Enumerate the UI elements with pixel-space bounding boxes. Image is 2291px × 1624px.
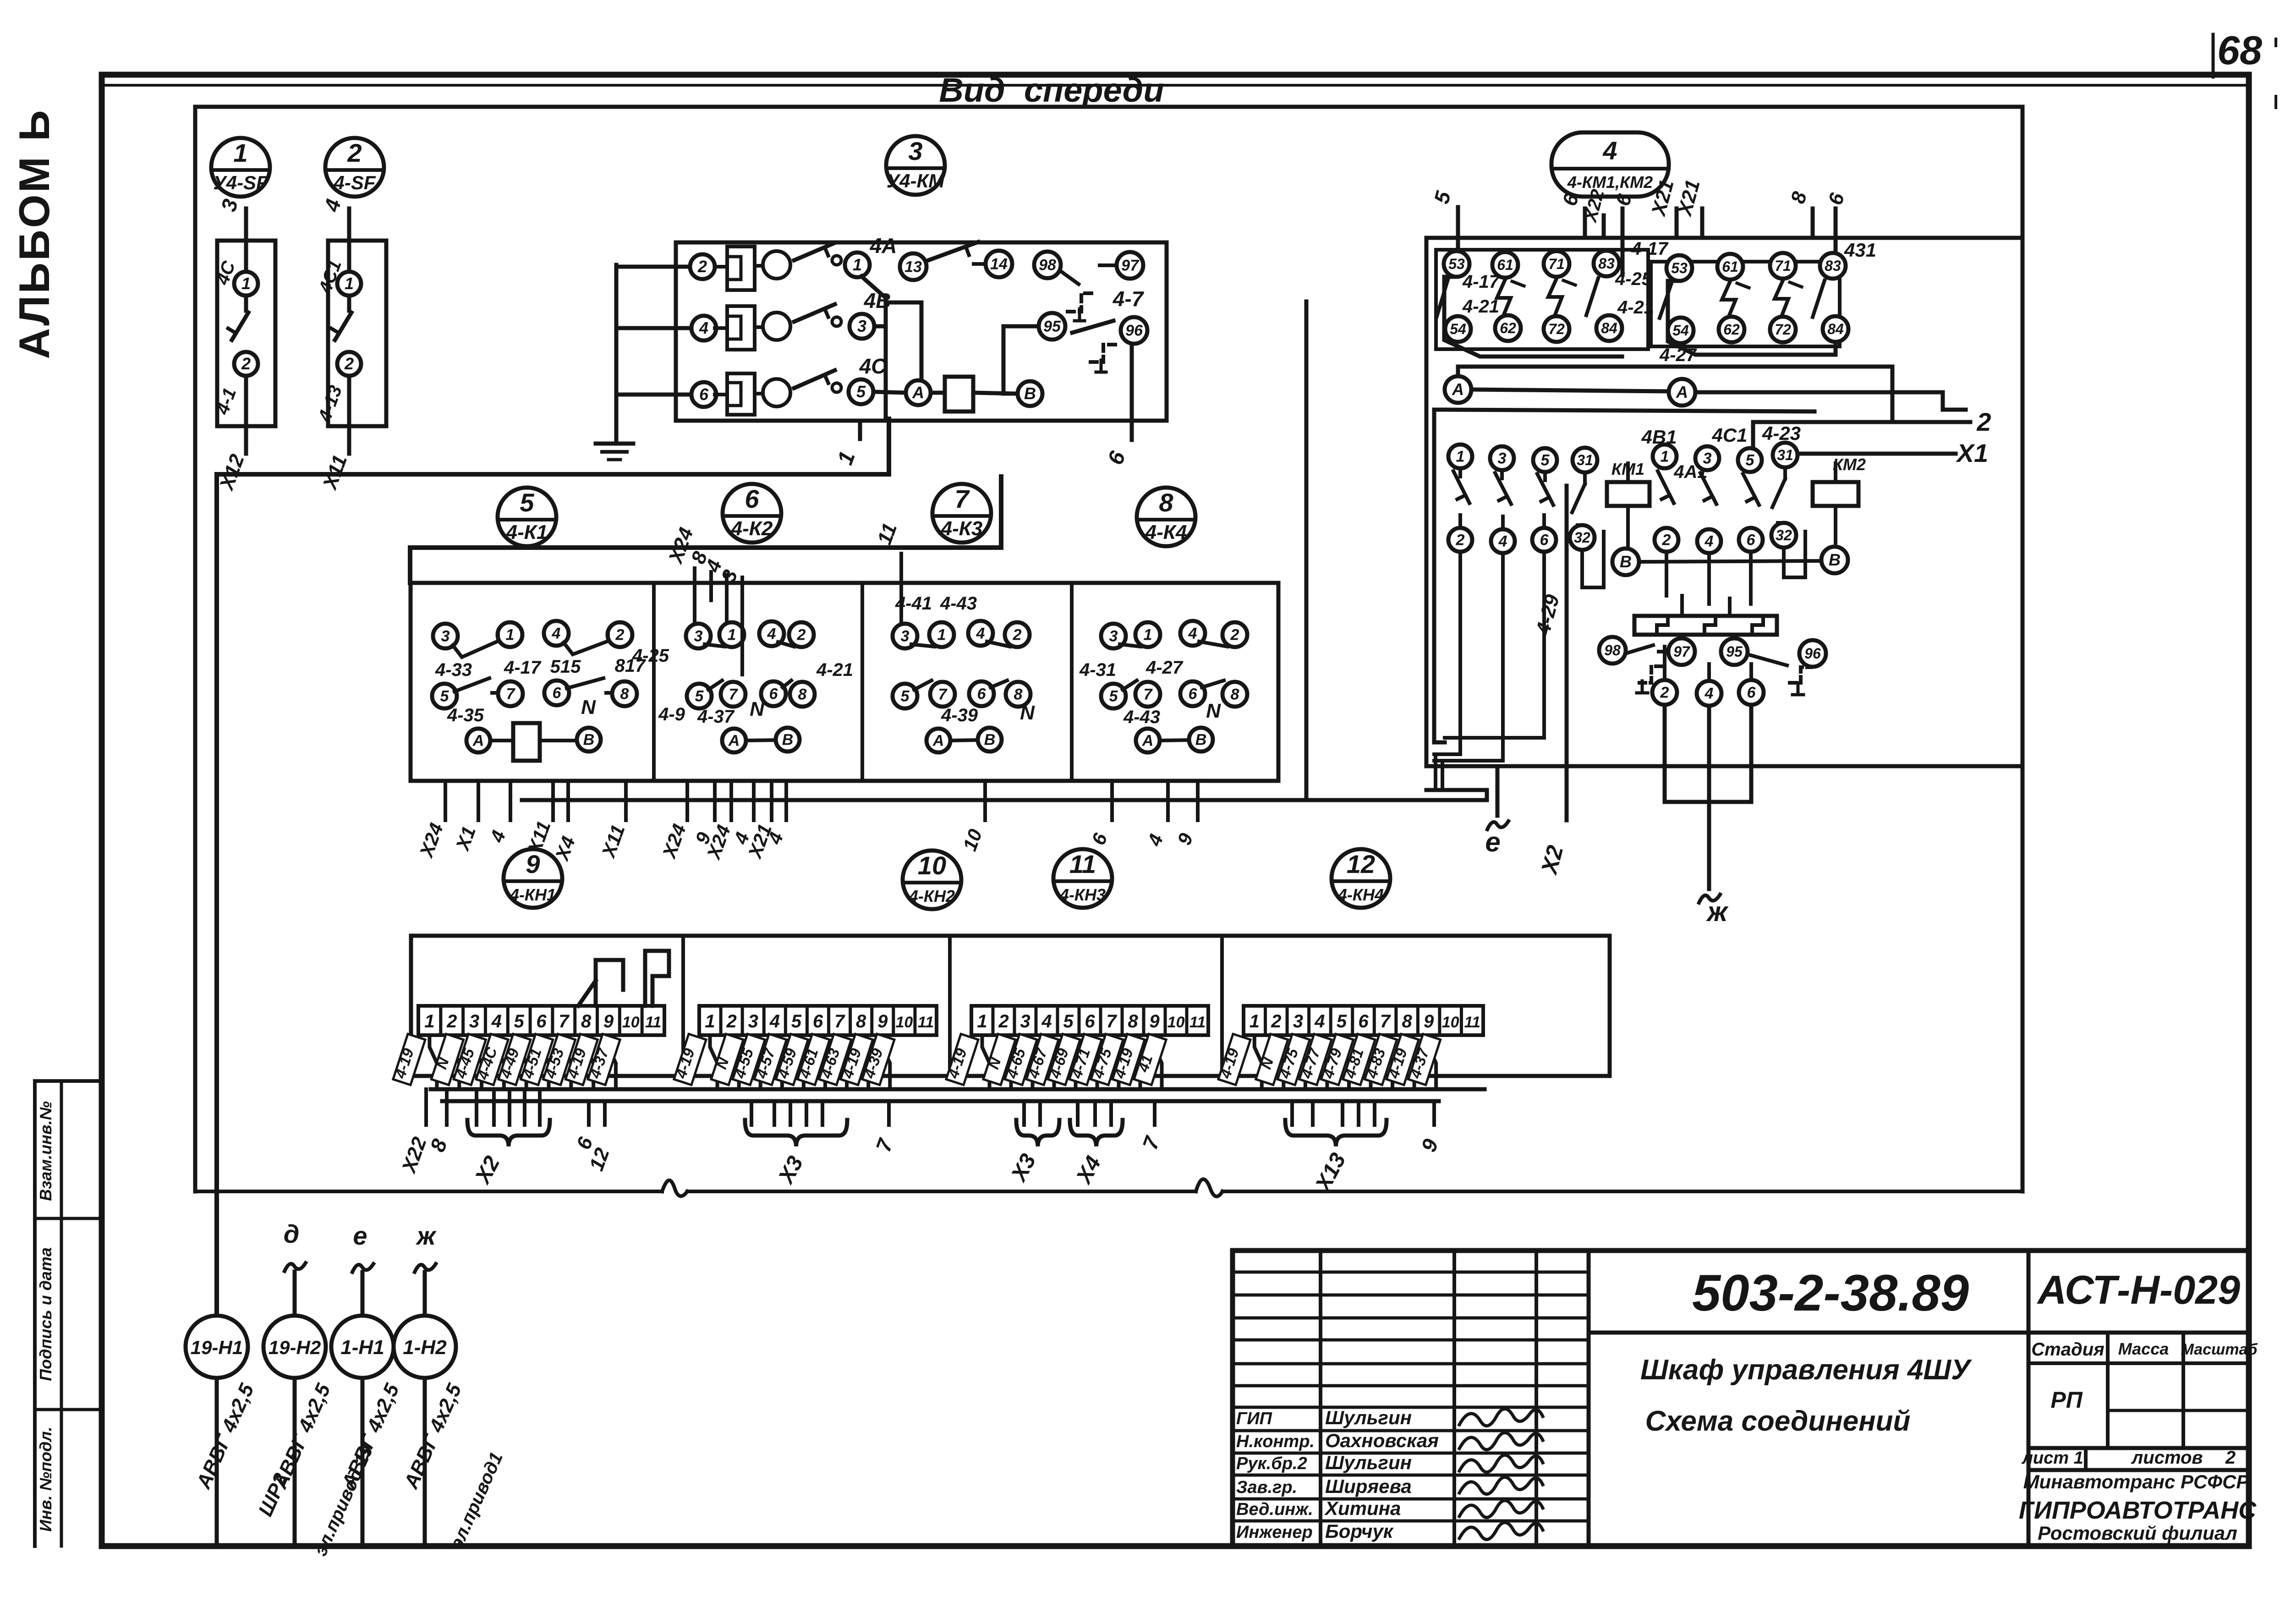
svg-text:6: 6 bbox=[1540, 532, 1549, 549]
svg-text:83: 83 bbox=[1598, 255, 1615, 272]
svg-text:5: 5 bbox=[901, 688, 910, 705]
terminal strips box bbox=[411, 936, 1610, 1076]
svg-text:А: А bbox=[1676, 383, 1688, 401]
svg-text:5: 5 bbox=[514, 1011, 525, 1031]
title block vertical lines left part bbox=[1319, 1251, 1322, 1546]
svg-text:11: 11 bbox=[1189, 1014, 1206, 1031]
svg-text:97: 97 bbox=[1121, 257, 1140, 274]
aux contact 98 bbox=[1034, 252, 1061, 278]
svg-text:Масса: Масса bbox=[2118, 1339, 2169, 1358]
svg-text:4-21: 4-21 bbox=[1462, 296, 1499, 317]
svg-text:Инженер: Инженер bbox=[1236, 1523, 1313, 1542]
svg-text:3: 3 bbox=[748, 1011, 758, 1031]
top stubs 6 X22 6 bbox=[1583, 208, 1587, 238]
relay K4 coil node B bbox=[1189, 728, 1213, 752]
svg-text:1: 1 bbox=[345, 274, 354, 293]
svg-text:3: 3 bbox=[441, 628, 450, 645]
relay K1 contact blades row1 bbox=[453, 632, 498, 657]
svg-text:1: 1 bbox=[1144, 626, 1152, 644]
svg-text:6: 6 bbox=[769, 686, 778, 703]
relay K4 contact blades row1 bbox=[1120, 644, 1140, 647]
overload circle row3 bbox=[763, 379, 790, 406]
svg-text:6: 6 bbox=[1085, 1011, 1095, 1031]
relay K3 contact blades row1 bbox=[911, 644, 934, 647]
svg-text:X1: X1 bbox=[1956, 439, 1989, 467]
svg-text:4-27: 4-27 bbox=[1145, 658, 1184, 678]
svg-text:4-КН1: 4-КН1 bbox=[510, 885, 556, 904]
svg-text:2: 2 bbox=[998, 1011, 1008, 1031]
svg-text:4-К3: 4-К3 bbox=[941, 517, 983, 540]
svg-text:5: 5 bbox=[1541, 452, 1550, 469]
coil node A bbox=[906, 380, 931, 405]
svg-text:А: А bbox=[472, 732, 484, 750]
svg-text:4: 4 bbox=[1602, 136, 1617, 165]
svg-text:2: 2 bbox=[446, 1011, 457, 1031]
thermal contact block bbox=[1634, 616, 1777, 635]
svg-text:5: 5 bbox=[856, 382, 866, 401]
svg-text:11: 11 bbox=[1069, 850, 1096, 878]
svg-text:Вид спереди: Вид спереди bbox=[939, 71, 1164, 109]
svg-text:13: 13 bbox=[904, 258, 922, 276]
svg-text:1: 1 bbox=[937, 626, 946, 644]
ground symbol bbox=[596, 442, 633, 446]
coil KM bbox=[945, 377, 973, 411]
bus wires A bbox=[1458, 367, 1892, 422]
svg-text:2: 2 bbox=[347, 138, 362, 167]
wire from pin 1 down to coil bbox=[861, 276, 886, 298]
wire pin5 to node A bbox=[873, 392, 906, 393]
svg-text:98: 98 bbox=[1039, 257, 1056, 274]
svg-text:У4-SF: У4-SF bbox=[213, 172, 269, 193]
breaker SF2 wire stub with node 4 bbox=[347, 208, 351, 240]
relay K4 pins row1 bbox=[1101, 624, 1126, 648]
terminal strip tag labels bbox=[674, 1034, 706, 1085]
svg-text:84: 84 bbox=[1601, 320, 1617, 336]
brace X3 bbox=[745, 1120, 847, 1147]
svg-text:11: 11 bbox=[1464, 1014, 1480, 1031]
svg-text:А: А bbox=[912, 383, 924, 402]
svg-text:72: 72 bbox=[1775, 321, 1791, 338]
breaker SF1 pin 2 bbox=[234, 352, 258, 376]
terminal strip drop wires bbox=[982, 1035, 990, 1089]
svg-text:1: 1 bbox=[977, 1011, 987, 1031]
svg-text:АЛЬБОМ Ь: АЛЬБОМ Ь bbox=[10, 108, 58, 359]
component badge 10 (4-КН2) bbox=[903, 850, 961, 909]
terminal strip tag labels bbox=[946, 1034, 978, 1085]
svg-text:19-Н2: 19-Н2 bbox=[269, 1337, 321, 1358]
svg-text:е: е bbox=[1485, 827, 1500, 857]
svg-text:4-43: 4-43 bbox=[940, 593, 977, 614]
relay K3 coil wire bbox=[950, 740, 978, 741]
node B left bbox=[1612, 549, 1639, 575]
breaker SF2 pin 2 bbox=[337, 352, 361, 376]
svg-text:ГИПРОАВТОТРАНС: ГИПРОАВТОТРАНС bbox=[2019, 1497, 2257, 1524]
fuse row1 bbox=[727, 247, 755, 290]
wire group2 exit bbox=[1668, 281, 1836, 355]
svg-text:3: 3 bbox=[1703, 450, 1712, 467]
svg-text:4-КМ1,КМ2: 4-КМ1,КМ2 bbox=[1567, 173, 1653, 192]
aux contact 13 bbox=[900, 253, 926, 280]
svg-text:Стадия: Стадия bbox=[2031, 1339, 2104, 1360]
svg-text:2: 2 bbox=[1976, 407, 1991, 436]
svg-text:3: 3 bbox=[694, 628, 703, 645]
svg-text:ГИП: ГИП bbox=[1236, 1409, 1272, 1428]
svg-text:8: 8 bbox=[1402, 1011, 1412, 1031]
contactor pin 1 node 4A bbox=[845, 252, 870, 277]
svg-text:5: 5 bbox=[1337, 1011, 1347, 1031]
stage mass scale header bbox=[2106, 1333, 2110, 1448]
svg-text:4-КН2: 4-КН2 bbox=[909, 887, 955, 905]
contact hooks in section 1 bbox=[578, 960, 623, 1006]
wire drops to bus bbox=[1434, 754, 1437, 790]
wire vertical x=2851 bbox=[1304, 302, 1309, 800]
svg-text:4-7: 4-7 bbox=[1113, 287, 1145, 311]
terminal stub drops section2 bbox=[750, 1101, 753, 1125]
svg-text:В: В bbox=[1829, 550, 1841, 569]
svg-text:431: 431 bbox=[1844, 239, 1876, 261]
svg-text:3: 3 bbox=[469, 1011, 479, 1031]
svg-text:7: 7 bbox=[834, 1011, 845, 1031]
relay K1 contact blades row2 bbox=[455, 678, 498, 693]
svg-text:7: 7 bbox=[1380, 1011, 1391, 1031]
aux contacts 71-72 group1 bbox=[1544, 251, 1569, 277]
relay K2 coil node A bbox=[722, 729, 746, 752]
relay K2 pins row2 bbox=[687, 684, 712, 708]
svg-text:4-25: 4-25 bbox=[632, 646, 669, 666]
svg-text:8: 8 bbox=[1159, 488, 1173, 517]
svg-text:Н.контр.: Н.контр. bbox=[1236, 1432, 1315, 1451]
aux contacts 83-84 group2 bbox=[1820, 253, 1846, 279]
component badge 11 (4-КН3) bbox=[1053, 849, 1112, 908]
overload circle row1 bbox=[763, 251, 790, 279]
relay K4 contact blades row2 bbox=[1123, 680, 1137, 690]
relay K4 bottom stubs bbox=[1110, 781, 1114, 820]
breaker SF1 wire stub with node 3 bbox=[244, 208, 248, 240]
contactor pin 4 bbox=[691, 316, 716, 340]
component badge 5 (4-К1) bbox=[498, 488, 556, 546]
wire: ground bus to cable 19-H1 bbox=[214, 474, 219, 1316]
wire horizontals inner bbox=[1434, 752, 1460, 756]
breaker SF1 switch blade bbox=[244, 296, 248, 311]
svg-text:1-Н1: 1-Н1 bbox=[340, 1336, 384, 1359]
svg-text:листов: листов bbox=[2131, 1448, 2203, 1468]
svg-text:В: В bbox=[782, 731, 794, 749]
terminal strip tag labels bbox=[1218, 1034, 1250, 1085]
svg-text:4-21: 4-21 bbox=[816, 660, 853, 680]
svg-text:Шкаф управления 4ШУ: Шкаф управления 4ШУ bbox=[1640, 1354, 1972, 1386]
title block frame bbox=[1233, 1251, 2249, 1546]
fuse row2 bbox=[727, 306, 755, 350]
component badge 3 (У4-КМ) bbox=[886, 136, 945, 195]
svg-text:68: 68 bbox=[2217, 27, 2262, 73]
svg-text:9: 9 bbox=[1424, 1011, 1434, 1031]
svg-text:11: 11 bbox=[645, 1014, 661, 1031]
svg-text:Минавтотранс РСФСР: Минавтотранс РСФСР bbox=[2023, 1471, 2250, 1492]
relay K3 contact blades row2 bbox=[914, 680, 932, 690]
svg-text:В: В bbox=[583, 731, 595, 749]
wire stub node 6 from 96 bbox=[1130, 344, 1134, 440]
relay K2 pins row1 bbox=[686, 624, 711, 648]
aux contact 14 bbox=[986, 251, 1012, 277]
svg-text:3: 3 bbox=[1498, 450, 1507, 467]
relay K1 coil node B bbox=[577, 728, 601, 752]
svg-text:8: 8 bbox=[1014, 686, 1023, 703]
relay block box bbox=[411, 583, 1278, 781]
svg-text:96: 96 bbox=[1125, 322, 1143, 340]
svg-text:7: 7 bbox=[954, 484, 970, 513]
svg-text:N: N bbox=[1206, 700, 1221, 722]
svg-text:84: 84 bbox=[1827, 321, 1844, 337]
svg-text:62: 62 bbox=[1500, 320, 1516, 336]
relay K2 coil wire bbox=[746, 740, 776, 741]
svg-text:6: 6 bbox=[1358, 1011, 1369, 1031]
bus wire X1 exit bbox=[1791, 452, 1956, 456]
svg-text:4-К1: 4-К1 bbox=[506, 521, 548, 543]
svg-text:83: 83 bbox=[1825, 258, 1841, 274]
svg-text:1: 1 bbox=[233, 138, 247, 167]
svg-text:4С: 4С bbox=[859, 354, 887, 378]
svg-text:6: 6 bbox=[1747, 532, 1756, 549]
svg-text:КМ2: КМ2 bbox=[1833, 455, 1866, 474]
component badge 12 (4-КН4) bbox=[1332, 849, 1390, 908]
svg-text:5: 5 bbox=[520, 488, 534, 517]
svg-text:10: 10 bbox=[622, 1014, 640, 1031]
svg-text:Подпись и дата: Подпись и дата bbox=[36, 1247, 55, 1381]
relay K4 pins row2 bbox=[1101, 684, 1126, 708]
svg-text:9: 9 bbox=[603, 1011, 614, 1031]
svg-text:А: А bbox=[1142, 732, 1154, 750]
svg-text:N: N bbox=[750, 698, 765, 720]
svg-text:N: N bbox=[1020, 702, 1035, 724]
signatures bbox=[1459, 1409, 1543, 1426]
svg-text:14: 14 bbox=[990, 256, 1008, 273]
contactor KM box bbox=[676, 242, 1167, 421]
svg-text:4: 4 bbox=[1498, 533, 1507, 550]
svg-text:31: 31 bbox=[1577, 452, 1593, 468]
brace X3b bbox=[1016, 1120, 1059, 1147]
svg-text:2: 2 bbox=[2225, 1448, 2236, 1468]
relay K3 top stub 11 bbox=[899, 554, 903, 624]
KM1 aux 31-32 bbox=[1573, 448, 1597, 472]
aux contact 97 lower bbox=[1668, 638, 1695, 665]
svg-text:Шульгин: Шульгин bbox=[1325, 1452, 1412, 1473]
svg-text:3: 3 bbox=[908, 137, 922, 165]
terminal stub drops section3 bbox=[1022, 1101, 1026, 1125]
svg-text:8: 8 bbox=[798, 686, 807, 703]
svg-text:515: 515 bbox=[550, 657, 581, 677]
svg-text:1: 1 bbox=[1661, 448, 1669, 466]
svg-text:Оахновская: Оахновская bbox=[1325, 1430, 1439, 1451]
component badge 7 (4-К3) bbox=[932, 484, 991, 543]
overload circle row2 bbox=[763, 313, 790, 340]
svg-text:6: 6 bbox=[745, 484, 759, 513]
KM2 pole 5-6 bbox=[1738, 448, 1762, 472]
terminal strip row bbox=[971, 1006, 1208, 1035]
aux contacts 53-54 group2 bbox=[1666, 255, 1692, 281]
relay block dividers bbox=[652, 583, 656, 781]
svg-text:9: 9 bbox=[1149, 1011, 1160, 1031]
KM2 pole 1-2 node 4A1 bbox=[1653, 444, 1677, 468]
svg-text:6: 6 bbox=[1747, 684, 1756, 702]
breaker SF1 box bbox=[217, 241, 275, 426]
svg-text:4: 4 bbox=[1314, 1011, 1325, 1031]
svg-text:7: 7 bbox=[729, 686, 739, 703]
cable 19-Н1 lead and labels bbox=[215, 1378, 219, 1543]
svg-text:4-КН3: 4-КН3 bbox=[1059, 885, 1106, 904]
relay K1 bottom stubs bbox=[444, 781, 447, 820]
relay K4 coil wire bbox=[1160, 740, 1189, 741]
svg-text:4-К4: 4-К4 bbox=[1145, 521, 1187, 543]
svg-text:Борчук: Борчук bbox=[1325, 1520, 1394, 1542]
svg-text:95: 95 bbox=[1043, 318, 1061, 335]
KM2 coil bbox=[1813, 482, 1858, 506]
timed contact lower left bbox=[1626, 645, 1653, 653]
aux contact 98 lower bbox=[1599, 637, 1626, 664]
relay K3 coil node A bbox=[926, 729, 950, 752]
svg-text:Схема соединений: Схема соединений bbox=[1645, 1405, 1911, 1437]
cable circle 19-Н1 bbox=[186, 1316, 248, 1378]
wires poles down bbox=[1458, 552, 1462, 754]
switch blade row3 bbox=[794, 370, 835, 388]
node B right bbox=[1821, 547, 1848, 573]
svg-text:97: 97 bbox=[1673, 643, 1691, 660]
svg-text:11: 11 bbox=[918, 1014, 934, 1031]
svg-text:31: 31 bbox=[1777, 447, 1793, 463]
svg-text:4-17: 4-17 bbox=[504, 658, 542, 678]
svg-text:4-9: 4-9 bbox=[658, 704, 685, 724]
svg-text:32: 32 bbox=[1574, 529, 1590, 546]
svg-text:4-23: 4-23 bbox=[1762, 422, 1801, 444]
svg-text:2: 2 bbox=[1662, 532, 1671, 549]
svg-text:54: 54 bbox=[1450, 321, 1466, 337]
svg-text:5: 5 bbox=[791, 1011, 802, 1031]
svg-text:5: 5 bbox=[1109, 688, 1118, 705]
svg-text:4: 4 bbox=[1188, 625, 1197, 642]
wire 4-29 long vertical bbox=[1565, 486, 1569, 820]
aux contacts 53-54 group1 bbox=[1444, 251, 1469, 277]
svg-text:1: 1 bbox=[241, 274, 251, 293]
svg-text:4: 4 bbox=[1041, 1011, 1052, 1031]
brace X2 bbox=[467, 1120, 550, 1147]
svg-text:4: 4 bbox=[1705, 533, 1714, 550]
node A left bbox=[1445, 376, 1471, 403]
svg-text:503-2-38.89: 503-2-38.89 bbox=[1692, 1264, 1969, 1322]
aux contacts 61-62 group1 bbox=[1492, 252, 1518, 278]
terminal strip row bbox=[699, 1006, 937, 1035]
aux contacts 61-62 group2 bbox=[1717, 254, 1743, 280]
aux contact 95 bbox=[1039, 313, 1065, 340]
title block row lines left part bbox=[1233, 1271, 1589, 1274]
svg-text:АСТ-Н-029: АСТ-Н-029 bbox=[2037, 1267, 2240, 1312]
svg-text:У4-КМ: У4-КМ bbox=[887, 170, 945, 192]
svg-text:ж: ж bbox=[1706, 896, 1729, 927]
aux contact 96 label 4-7 bbox=[1121, 317, 1147, 344]
svg-text:В: В bbox=[1620, 552, 1632, 571]
cable 1-Н1 lead and labels bbox=[361, 1378, 365, 1543]
svg-text:4-21: 4-21 bbox=[1617, 297, 1654, 318]
svg-text:32: 32 bbox=[1776, 527, 1792, 543]
aux switch blade 13-14 bbox=[928, 242, 978, 260]
terminal strip drop wires bbox=[710, 1035, 718, 1089]
svg-text:4: 4 bbox=[552, 625, 561, 642]
svg-text:8: 8 bbox=[620, 686, 629, 703]
terminal stub drops section4 bbox=[1290, 1101, 1294, 1125]
svg-text:4-17: 4-17 bbox=[1631, 239, 1669, 259]
relay K3 pins row1 bbox=[893, 624, 917, 648]
svg-text:А: А bbox=[1452, 380, 1464, 399]
svg-text:2: 2 bbox=[1456, 532, 1465, 549]
svg-text:72: 72 bbox=[1548, 321, 1565, 337]
KM1 pole 5-6 bbox=[1533, 448, 1557, 472]
switch blade row1 bbox=[794, 243, 835, 260]
svg-text:5: 5 bbox=[1746, 452, 1755, 469]
wire pin3 to vertical bbox=[874, 324, 886, 329]
relay K2 coil node B bbox=[776, 728, 800, 752]
brace X4 bbox=[1070, 1120, 1123, 1147]
svg-text:А: А bbox=[728, 732, 740, 750]
svg-text:54: 54 bbox=[1672, 322, 1689, 339]
timed contact 95-96 bbox=[1072, 321, 1113, 333]
cable circle 1-Н1 bbox=[331, 1316, 394, 1378]
wire stub e bbox=[1496, 766, 1500, 816]
svg-text:4: 4 bbox=[1705, 685, 1714, 702]
timed contact lower right bbox=[1748, 654, 1787, 665]
svg-text:6: 6 bbox=[1189, 686, 1198, 703]
contactor pin 3 node 4B bbox=[850, 314, 874, 339]
svg-text:2: 2 bbox=[726, 1011, 737, 1031]
svg-text:71: 71 bbox=[1548, 256, 1565, 272]
svg-text:53: 53 bbox=[1671, 260, 1688, 276]
svg-text:е: е bbox=[353, 1221, 367, 1250]
svg-text:10: 10 bbox=[1167, 1014, 1185, 1031]
terminal bus lines bbox=[431, 1087, 1485, 1092]
svg-text:2: 2 bbox=[1230, 626, 1239, 644]
component badge 4 (4-КМ1,КМ2) bbox=[1551, 132, 1669, 197]
svg-text:Инв. №подл.: Инв. №подл. bbox=[36, 1426, 55, 1531]
svg-text:1: 1 bbox=[424, 1011, 434, 1031]
svg-text:7: 7 bbox=[559, 1011, 570, 1031]
svg-text:4-25: 4-25 bbox=[1615, 269, 1652, 289]
svg-text:Ширяева: Ширяева bbox=[1325, 1476, 1412, 1497]
KM2 aux 31-32 bbox=[1773, 443, 1798, 467]
KM1 pole 3-4 bbox=[1490, 446, 1514, 470]
svg-text:12: 12 bbox=[1347, 850, 1375, 878]
relay K2 contact blades row2 bbox=[708, 680, 722, 690]
wires lower pins to box bottom bbox=[1663, 705, 1667, 766]
svg-text:В: В bbox=[1024, 384, 1036, 403]
switch blade row2 bbox=[794, 304, 835, 322]
svg-text:В: В bbox=[984, 731, 996, 749]
svg-text:лист 1: лист 1 bbox=[2021, 1448, 2083, 1468]
svg-text:3: 3 bbox=[1020, 1011, 1030, 1031]
svg-text:Взам.инв.№: Взам.инв.№ bbox=[36, 1101, 55, 1201]
relay K4 coil node A bbox=[1136, 729, 1160, 752]
cable 19-Н2 lead and labels bbox=[293, 1378, 297, 1543]
relay K1 pins row2 bbox=[432, 684, 457, 708]
svg-text:Вед.инж.: Вед.инж. bbox=[1236, 1500, 1313, 1519]
svg-text:2: 2 bbox=[1660, 684, 1669, 702]
relay K2 bottom stubs bbox=[685, 781, 689, 820]
svg-text:2: 2 bbox=[697, 257, 707, 276]
content box bottom edge with break squiggles bbox=[195, 1190, 662, 1193]
svg-text:6: 6 bbox=[813, 1011, 823, 1031]
component badge 1 (У4-SF) bbox=[211, 138, 270, 197]
svg-text:10: 10 bbox=[1442, 1014, 1459, 1031]
svg-text:N: N bbox=[581, 696, 596, 719]
relay K1 coil bbox=[513, 723, 540, 761]
component badge 2 (4-SF) bbox=[325, 138, 384, 197]
svg-text:1-Н2: 1-Н2 bbox=[403, 1336, 447, 1359]
